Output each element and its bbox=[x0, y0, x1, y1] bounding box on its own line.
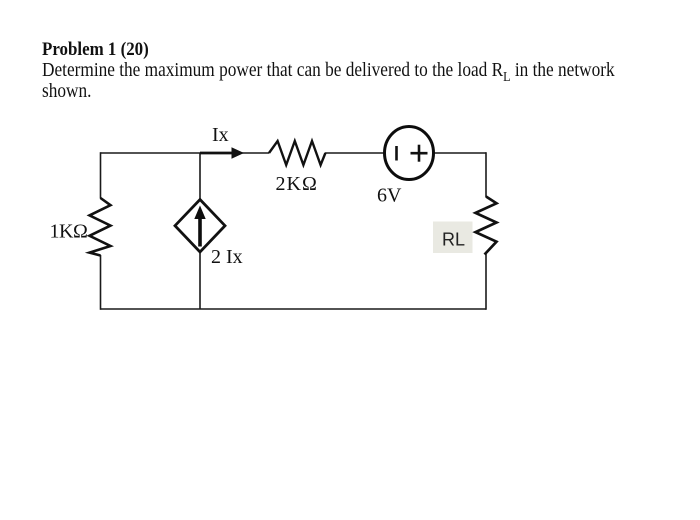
minus terminal bar bbox=[395, 146, 398, 161]
svg-text:Ix: Ix bbox=[212, 124, 229, 146]
resistor R 2KΩ bbox=[269, 141, 325, 165]
wire right vertical lower bbox=[485, 254, 487, 310]
wire top middle resistor-to-source bbox=[325, 152, 384, 154]
resistor RL (right) bbox=[476, 197, 497, 255]
svg-text:1KΩ: 1KΩ bbox=[50, 221, 88, 243]
wire top source-to-right bbox=[434, 152, 486, 154]
wire left vertical lower bbox=[100, 255, 102, 310]
wire bottom horizontal bbox=[101, 308, 487, 310]
voltage source V1 6V bbox=[385, 127, 434, 180]
wire left vertical upper bbox=[100, 152, 102, 198]
wire middle vertical lower bbox=[199, 252, 201, 310]
wire top-left horizontal bbox=[101, 152, 270, 154]
plus terminal bbox=[411, 152, 428, 155]
wire right vertical upper bbox=[485, 152, 487, 197]
svg-text:6V: 6V bbox=[377, 185, 402, 207]
arrow inside diamond bbox=[198, 216, 202, 247]
svg-text:RL: RL bbox=[442, 230, 465, 250]
svg-text:2KΩ: 2KΩ bbox=[276, 173, 318, 195]
dependent current source 2Ix (diamond) bbox=[175, 200, 225, 253]
svg-text:2 Ix: 2 Ix bbox=[211, 246, 243, 268]
resistor R1 1KΩ (left) bbox=[90, 198, 111, 256]
current arrow Ix on top wire bbox=[200, 152, 233, 155]
RL label box bbox=[433, 222, 473, 254]
wire middle vertical upper bbox=[199, 153, 201, 200]
